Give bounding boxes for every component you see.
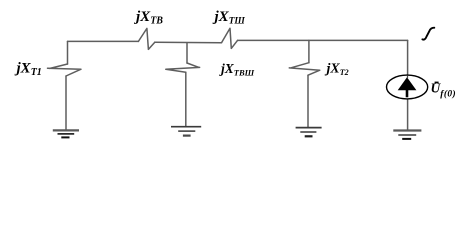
reactance X_T2 break symbol bbox=[289, 63, 320, 75]
wire third branch upper bbox=[308, 40, 310, 62]
wire source branch upper bbox=[407, 40, 409, 75]
wire middle branch upper bbox=[186, 43, 188, 63]
phasor dot over U bbox=[435, 82, 439, 84]
svg-text:jXТ2: jXТ2 bbox=[325, 62, 349, 78]
wire bus left segment bbox=[68, 40, 139, 42]
reactance X_TSh series element 2 bbox=[222, 28, 238, 48]
svg-text:jXТ1: jXТ1 bbox=[15, 60, 42, 78]
wire bus middle segment bbox=[155, 41, 222, 44]
ground middle bbox=[171, 127, 201, 136]
reactance X_TBSh break symbol bbox=[166, 63, 200, 72]
ground third bbox=[296, 128, 322, 137]
svg-text:Uf(0): Uf(0) bbox=[431, 81, 457, 100]
svg-text:jXТШ: jXТШ bbox=[213, 9, 246, 27]
wire third branch lower bbox=[307, 75, 309, 127]
reactance X_T1 break symbol bbox=[48, 64, 82, 76]
ground right bbox=[393, 131, 421, 139]
wire bus right segment to node f bbox=[238, 39, 408, 41]
wire left branch lower bbox=[65, 76, 67, 129]
source U_f(0) ellipse bbox=[387, 75, 428, 99]
source arrow bbox=[398, 77, 417, 90]
svg-text:jXТВШ: jXТВШ bbox=[219, 61, 255, 78]
svg-text:jXТВ: jXТВ bbox=[134, 9, 163, 27]
wire left branch upper bbox=[67, 41, 69, 64]
wire source branch lower bbox=[407, 99, 409, 130]
wire middle branch lower bbox=[185, 72, 187, 126]
label node f bbox=[422, 28, 434, 40]
reactance X_TB series element 1 bbox=[138, 28, 154, 49]
ground left bbox=[53, 130, 79, 137]
